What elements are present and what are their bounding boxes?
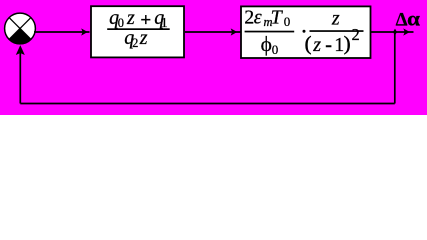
arrowhead into block G1 [81, 28, 88, 35]
label Delta alpha [396, 6, 421, 30]
output arrowhead [403, 28, 410, 35]
svg-text:2: 2 [132, 36, 138, 50]
junction node dot [393, 29, 397, 36]
block G2 first denominator phi_0 [261, 32, 279, 57]
feedback wire down from junction [394, 32, 396, 104]
svg-text:ϕ: ϕ [261, 32, 272, 56]
feedback wire up into summing junction [19, 52, 21, 104]
svg-text:0: 0 [272, 42, 279, 57]
block G2 first fraction bar [245, 31, 295, 33]
svg-text:T: T [271, 6, 284, 28]
arrowhead into summing junction [16, 46, 24, 55]
block G1 fraction bar [107, 28, 170, 30]
svg-text:z: z [126, 7, 135, 29]
block G1 [91, 6, 184, 57]
svg-text:2: 2 [352, 25, 360, 44]
svg-text:0: 0 [118, 16, 124, 30]
block G2 second denominator (z - 1)^2 [305, 25, 360, 56]
svg-text:α: α [407, 6, 420, 30]
block G2 [241, 6, 371, 58]
block G2 first numerator 2 epsilon_m T_0 [244, 6, 290, 29]
block G2 second fraction bar [310, 30, 364, 32]
wire from block G1 to block G2 [185, 31, 241, 33]
svg-text:): ) [344, 33, 351, 55]
arrowhead into block G2 [231, 28, 238, 35]
svg-text:0: 0 [284, 14, 291, 29]
svg-text:ε: ε [254, 6, 262, 28]
svg-text:Δ: Δ [396, 9, 408, 30]
block G1 denominator q2 z [124, 27, 148, 50]
multiplication dot [303, 30, 306, 33]
svg-text:z: z [312, 34, 321, 56]
block G1 numerator q0 z + q1 [109, 7, 168, 31]
feedback wire bottom [20, 103, 395, 105]
summing junction S1 [5, 13, 36, 44]
wire from summing junction to block G1 [34, 31, 90, 33]
svg-text:z: z [331, 7, 340, 29]
svg-text:(: ( [305, 33, 312, 55]
svg-text:-: - [325, 34, 332, 56]
output wire [371, 31, 414, 33]
svg-text:z: z [139, 27, 148, 49]
svg-text:2: 2 [244, 6, 254, 28]
